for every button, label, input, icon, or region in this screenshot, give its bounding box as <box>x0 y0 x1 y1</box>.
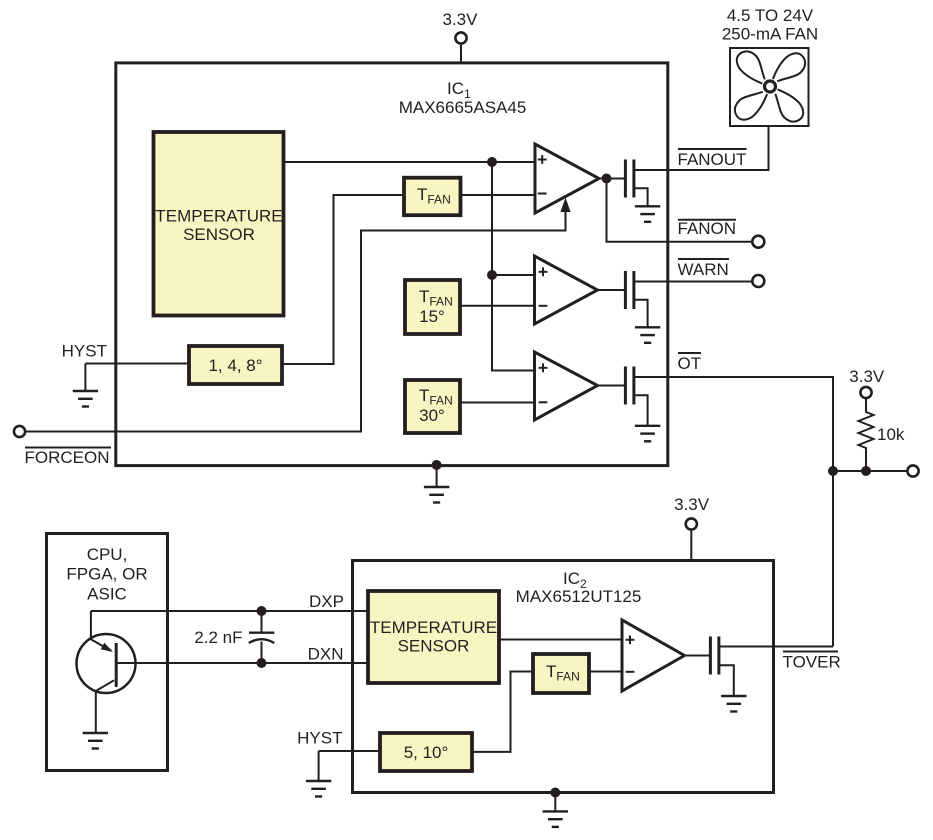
wire +in U1B <box>492 274 535 276</box>
ground (IC1) <box>424 487 449 503</box>
svg-text:15°: 15° <box>419 307 445 326</box>
output terminal circle <box>907 465 918 476</box>
ground (HYST IC1) <box>73 391 98 407</box>
wire DXN <box>116 662 368 664</box>
op-amp U2 (tover comparator) <box>622 620 685 691</box>
temperature sensor block (IC2) <box>368 591 499 683</box>
TOVER label <box>783 651 838 653</box>
wire OT net to pullup and TOVER <box>634 377 833 647</box>
wire 3.3V to IC1 top <box>460 44 462 64</box>
node U1A output junction <box>602 174 612 184</box>
temperature sensor block (IC1) <box>154 132 284 316</box>
terminal circle 3.3V IC2 <box>686 518 697 529</box>
wire Tfan to -in U1A <box>461 194 536 196</box>
svg-text:TEMPERATURE: TEMPERATURE <box>370 618 497 637</box>
wire U1B out to M2 gate <box>598 289 625 291</box>
svg-text:4.5 TO 24V: 4.5 TO 24V <box>727 6 814 25</box>
svg-text:HYST: HYST <box>297 729 342 748</box>
svg-text:DXP: DXP <box>309 592 344 611</box>
svg-text:TEMPERATURE: TEMPERATURE <box>155 207 282 226</box>
svg-text:DXN: DXN <box>308 645 344 664</box>
ground (Q3 source) <box>635 426 660 442</box>
node B junction <box>487 270 497 280</box>
CPU box <box>47 534 168 771</box>
svg-text:MAX6665ASA45: MAX6665ASA45 <box>399 98 527 117</box>
wire U2 out to M4 gate <box>685 655 710 657</box>
wire Tfan15 to -in U1B <box>460 305 535 307</box>
wire temp2 to +in U2 <box>499 639 622 641</box>
wire Tfan2 to -in U2 <box>589 671 622 673</box>
svg-text:FANON: FANON <box>678 219 737 238</box>
wire IC2 bottom ground <box>550 788 560 798</box>
FORCEON terminal <box>14 426 25 437</box>
ground (Q1 source) <box>635 206 660 222</box>
svg-text:5, 10°: 5, 10° <box>404 743 449 762</box>
wire FORCEON to U1A arrow <box>26 210 566 432</box>
mosfet Q2 (WARN driver) <box>625 271 752 327</box>
wire fan to FANOUT <box>635 126 769 170</box>
svg-text:OT: OT <box>678 354 702 373</box>
transistor Q5 (remote sense) <box>77 634 136 693</box>
wire HYST2 <box>319 750 380 752</box>
terminal circle 3.3V top <box>455 32 466 43</box>
IC2 box MAX6512UT125 <box>353 561 774 793</box>
terminal circle 3.3V right <box>860 387 871 398</box>
OT label <box>678 352 701 354</box>
op-amp U1B (warn comparator) <box>535 256 598 324</box>
svg-text:WARN: WARN <box>678 260 729 279</box>
node DXN junction <box>257 658 267 668</box>
wire FANON from U1A out <box>607 179 753 242</box>
svg-text:10k: 10k <box>877 425 905 444</box>
svg-text:3.3V: 3.3V <box>443 10 479 29</box>
op-amp U1A (fan comparator) <box>535 144 599 213</box>
wire collector to ground <box>95 690 97 733</box>
wire 1,4,8 to Tfan <box>283 195 404 364</box>
Tfan block (IC2) <box>533 654 589 693</box>
wire IC1 bottom ground <box>432 460 442 470</box>
mosfet Q3 (OT driver) <box>625 367 647 426</box>
svg-text:3.3V: 3.3V <box>849 367 885 386</box>
wire pullup node to output terminal <box>833 470 907 472</box>
arrow into U1A <box>560 198 570 213</box>
node A junction <box>487 157 497 167</box>
FANOUT label <box>678 148 747 150</box>
ground (HYST IC2) <box>306 781 331 797</box>
wire emitter to DXP <box>90 611 92 640</box>
WARN label <box>678 258 729 260</box>
wire hyst ground stem <box>84 364 86 392</box>
node OT/pullup junction <box>828 466 838 476</box>
Tfan 30 block <box>405 380 460 433</box>
resistor R1 10k <box>859 398 874 471</box>
WARN terminal <box>752 275 764 287</box>
svg-text:TOVER: TOVER <box>783 653 841 672</box>
svg-text:MAX6512UT125: MAX6512UT125 <box>516 587 642 606</box>
wire temp sensor to +in U1A <box>284 161 535 163</box>
capacitor C1 2.2nF <box>249 611 274 663</box>
FANON terminal <box>752 236 764 248</box>
fan M1 (4.5 to 24V 250-mA fan) <box>730 48 809 126</box>
svg-text:2.2 nF: 2.2 nF <box>194 628 242 647</box>
ground (Q4 source) <box>721 696 746 712</box>
svg-text:CPU,: CPU, <box>87 545 128 564</box>
ground (transistor) <box>83 733 108 749</box>
op-amp U1C (overtemperature comparator) <box>535 352 598 420</box>
svg-text:ASIC: ASIC <box>87 585 127 604</box>
mosfet Q1 (FANOUT driver) <box>625 160 647 207</box>
wire DXP <box>91 610 368 612</box>
svg-text:SENSOR: SENSOR <box>183 225 255 244</box>
svg-text:30°: 30° <box>419 406 445 425</box>
ground (Q2 source) <box>635 327 660 343</box>
svg-text:FPGA, OR: FPGA, OR <box>66 565 147 584</box>
svg-text:FORCEON: FORCEON <box>25 448 110 467</box>
ground (IC2) <box>543 811 568 827</box>
wire U1C out to M3 gate <box>598 385 625 387</box>
svg-text:3.3V: 3.3V <box>674 495 710 514</box>
hysteresis block 5,10 <box>380 733 472 771</box>
svg-text:250-mA FAN: 250-mA FAN <box>722 25 818 44</box>
svg-text:1, 4, 8°: 1, 4, 8° <box>208 356 262 375</box>
svg-text:FANOUT: FANOUT <box>678 150 747 169</box>
FORCEON label <box>25 447 111 449</box>
svg-text:SENSOR: SENSOR <box>398 637 470 656</box>
wire U1A out to M1 gate <box>599 178 624 180</box>
FANON label <box>678 219 736 221</box>
svg-text:HYST: HYST <box>62 342 107 361</box>
node resistor junction <box>861 466 871 476</box>
wire HYST to 1,4,8 <box>85 363 189 365</box>
mosfet Q4 (TOVER driver) <box>710 637 833 697</box>
Tfan 15 block <box>405 280 460 334</box>
wire Tfan30 to -in U1C <box>460 402 535 404</box>
node DXP junction <box>257 606 267 616</box>
Tfan block (IC1) <box>404 178 461 216</box>
wire 5,10 to Tfan2 <box>472 672 533 752</box>
wire 3.3V to IC2 <box>690 530 692 561</box>
wire temp bus vertical <box>492 162 535 371</box>
IC1 box MAX6665ASA45 <box>116 63 668 466</box>
hysteresis block 1,4,8 <box>189 346 282 384</box>
